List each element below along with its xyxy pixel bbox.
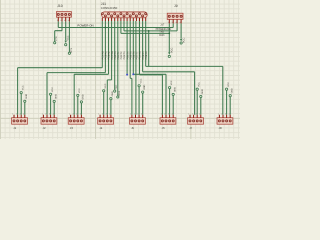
svg-text:3: 3 bbox=[76, 113, 77, 116]
svg-text:4: 4 bbox=[172, 113, 173, 116]
svg-text:2: 2 bbox=[73, 113, 74, 116]
svg-text:J5: J5 bbox=[131, 126, 134, 130]
svg-text:3: 3 bbox=[225, 113, 226, 116]
svg-text:CONN-D15F: CONN-D15F bbox=[101, 6, 118, 10]
svg-text:3: 3 bbox=[168, 113, 169, 116]
svg-text:2: 2 bbox=[102, 113, 103, 116]
svg-text:2: 2 bbox=[16, 113, 17, 116]
svg-text:4: 4 bbox=[23, 113, 24, 116]
svg-text:GND: GND bbox=[25, 94, 28, 99]
svg-text:J7: J7 bbox=[189, 126, 192, 130]
svg-text:4: 4 bbox=[199, 113, 200, 116]
svg-text:2: 2 bbox=[172, 21, 173, 24]
svg-text:CTS: CTS bbox=[55, 36, 58, 41]
svg-text:1: 1 bbox=[69, 113, 70, 116]
svg-text:1: 1 bbox=[218, 113, 219, 116]
svg-text:TX2: TX2 bbox=[115, 85, 118, 90]
svg-text:J17: J17 bbox=[160, 23, 165, 26]
svg-text:POWER-ON: POWER-ON bbox=[77, 24, 93, 28]
svg-text:GND: GND bbox=[201, 89, 204, 94]
svg-text:4: 4 bbox=[80, 113, 81, 116]
svg-text:GND: GND bbox=[143, 84, 146, 89]
svg-text:1: 1 bbox=[12, 113, 13, 116]
svg-text:VCC: VCC bbox=[170, 80, 173, 85]
svg-text:VCC: VCC bbox=[78, 88, 81, 93]
svg-text:J9: J9 bbox=[174, 4, 178, 8]
svg-text:RXD: RXD bbox=[159, 34, 164, 37]
svg-text:3: 3 bbox=[137, 113, 138, 116]
svg-text:GND: GND bbox=[55, 94, 58, 99]
svg-text:4: 4 bbox=[68, 19, 69, 22]
svg-text:3: 3 bbox=[49, 113, 50, 116]
svg-text:1: 1 bbox=[188, 113, 189, 116]
svg-text:GND: GND bbox=[174, 87, 177, 92]
svg-text:RX2: RX2 bbox=[118, 90, 121, 95]
svg-text:2: 2 bbox=[60, 19, 61, 22]
svg-text:VCC: VCC bbox=[198, 82, 201, 87]
svg-text:1: 1 bbox=[98, 113, 99, 116]
svg-text:J4: J4 bbox=[99, 126, 102, 130]
svg-text:1: 1 bbox=[57, 19, 58, 22]
svg-text:1: 1 bbox=[130, 113, 131, 116]
svg-text:4: 4 bbox=[53, 113, 54, 116]
svg-text:J1: J1 bbox=[13, 126, 16, 130]
svg-text:3: 3 bbox=[176, 21, 177, 24]
svg-text:3: 3 bbox=[196, 113, 197, 116]
svg-text:3: 3 bbox=[64, 19, 65, 22]
svg-text:VCC: VCC bbox=[227, 82, 230, 87]
svg-text:2: 2 bbox=[164, 113, 165, 116]
svg-text:2: 2 bbox=[221, 113, 222, 116]
svg-text:J3: J3 bbox=[70, 126, 73, 130]
svg-text:4: 4 bbox=[180, 21, 181, 24]
svg-text:VCC: VCC bbox=[182, 38, 185, 43]
svg-text:GND: GND bbox=[82, 94, 85, 99]
svg-text:3: 3 bbox=[20, 113, 21, 116]
svg-text:VCC: VCC bbox=[22, 85, 25, 90]
svg-text:2: 2 bbox=[134, 113, 135, 116]
svg-text:J10: J10 bbox=[57, 4, 63, 8]
svg-text:PD6/X2: PD6/X2 bbox=[145, 51, 148, 60]
svg-text:J8: J8 bbox=[219, 126, 222, 130]
svg-text:2: 2 bbox=[192, 113, 193, 116]
svg-text:1: 1 bbox=[161, 113, 162, 116]
svg-text:VCC: VCC bbox=[171, 48, 174, 53]
svg-text:TXD: TXD bbox=[159, 31, 164, 34]
svg-text:J6: J6 bbox=[162, 126, 165, 130]
svg-text:4: 4 bbox=[109, 113, 110, 116]
svg-text:1: 1 bbox=[168, 21, 169, 24]
svg-text:RTS: RTS bbox=[70, 47, 73, 52]
svg-text:VCC: VCC bbox=[104, 83, 107, 88]
svg-text:1: 1 bbox=[42, 113, 43, 116]
svg-text:VCC: VCC bbox=[51, 87, 54, 92]
svg-text:3: 3 bbox=[106, 113, 107, 116]
svg-text:VCC: VCC bbox=[139, 78, 142, 83]
svg-text:4: 4 bbox=[229, 113, 230, 116]
svg-text:2: 2 bbox=[45, 113, 46, 116]
svg-text:GND: GND bbox=[111, 91, 114, 96]
svg-text:GND: GND bbox=[231, 88, 234, 93]
svg-text:VCC: VCC bbox=[67, 35, 70, 40]
svg-text:J2: J2 bbox=[43, 126, 46, 130]
svg-text:4: 4 bbox=[141, 113, 142, 116]
